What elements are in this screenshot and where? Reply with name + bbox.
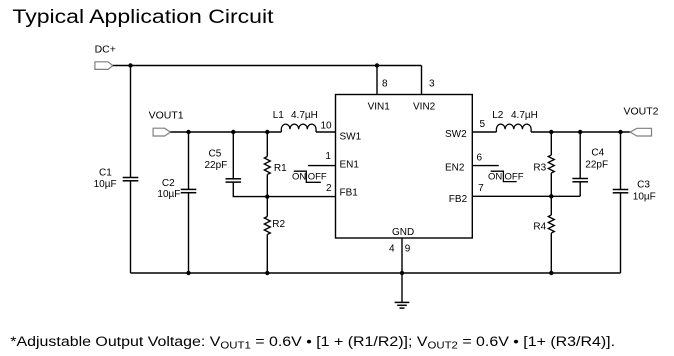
svg-text:SW1: SW1 bbox=[340, 131, 362, 142]
resistor R2 bbox=[264, 217, 285, 235]
svg-text:10µF: 10µF bbox=[94, 179, 117, 190]
capacitor C4 bbox=[572, 147, 608, 181]
wire C5 top lead bbox=[232, 132, 234, 178]
svg-text:2: 2 bbox=[326, 183, 332, 194]
wire R4 leads bbox=[550, 196, 552, 215]
wire C2 leads bbox=[188, 132, 190, 189]
svg-text:C2: C2 bbox=[162, 178, 175, 189]
node junction DC+/C1 bbox=[128, 63, 132, 67]
svg-text:9: 9 bbox=[405, 243, 411, 254]
svg-text:10µF: 10µF bbox=[157, 189, 180, 200]
capacitor C3 bbox=[613, 180, 656, 203]
svg-text:C4: C4 bbox=[591, 147, 604, 158]
capacitor C1 bbox=[94, 167, 139, 190]
node junction C5 top bbox=[231, 130, 235, 134]
wire to ground symbol bbox=[401, 273, 403, 302]
svg-text:C5: C5 bbox=[209, 148, 222, 159]
svg-text:FB2: FB2 bbox=[449, 194, 468, 205]
svg-text:L1: L1 bbox=[273, 110, 285, 121]
svg-text:EN1: EN1 bbox=[340, 159, 360, 170]
node junction FB1/R1/R2 bbox=[265, 194, 269, 198]
wire FB2 net bbox=[472, 195, 580, 197]
wire R3 leads bbox=[550, 132, 552, 155]
node junction R4 bottom bbox=[549, 271, 553, 275]
wire pin 3 drop bbox=[421, 66, 423, 95]
wire C5 bottom lead to FB1 net bbox=[233, 182, 267, 196]
svg-text:R4: R4 bbox=[533, 222, 546, 233]
svg-text:VOUT2: VOUT2 bbox=[624, 106, 659, 118]
svg-text:*Adjustable Output Voltage: VO: *Adjustable Output Voltage: VOUT1 = 0.6V… bbox=[10, 334, 615, 352]
wire L1 to SW1 pin bbox=[316, 131, 336, 133]
node junction GND bbox=[400, 271, 404, 275]
wire EN2 stub bbox=[472, 165, 499, 167]
resistor R1 bbox=[264, 157, 287, 175]
svg-text:ON: ON bbox=[488, 171, 502, 182]
node junction pin8 bbox=[375, 63, 379, 67]
svg-text:5: 5 bbox=[480, 119, 486, 130]
svg-text:3: 3 bbox=[429, 79, 435, 90]
wire C1 bottom lead bbox=[130, 181, 132, 273]
node junction C3 top bbox=[618, 130, 622, 134]
svg-text:R3: R3 bbox=[533, 163, 546, 174]
ground bbox=[395, 302, 410, 308]
svg-text:OFF: OFF bbox=[505, 171, 524, 182]
node junction FB2/R3/R4 bbox=[549, 194, 553, 198]
capacitor C2 bbox=[157, 178, 196, 200]
wire FB1 net bbox=[267, 196, 335, 198]
svg-text:R2: R2 bbox=[272, 219, 285, 230]
node junction C2 top bbox=[186, 130, 190, 134]
wire SW2 to L2 bbox=[472, 131, 496, 133]
svg-text:22pF: 22pF bbox=[205, 160, 228, 171]
capacitor C5 bbox=[205, 148, 242, 182]
svg-text:22pF: 22pF bbox=[585, 160, 608, 171]
svg-text:OFF: OFF bbox=[308, 171, 327, 182]
node junction R1 top bbox=[265, 130, 269, 134]
inductor L2 bbox=[492, 110, 538, 132]
svg-text:Typical Application Circuit: Typical Application Circuit bbox=[12, 5, 273, 27]
wire EN1 stub bbox=[308, 165, 336, 167]
resistor R3 bbox=[533, 155, 554, 174]
svg-text:DC+: DC+ bbox=[95, 44, 116, 56]
svg-text:GND: GND bbox=[392, 227, 414, 238]
wire GND pin to rail bbox=[401, 238, 403, 273]
svg-text:SW2: SW2 bbox=[445, 129, 467, 140]
wire top rail from DC+ to VIN pins bbox=[113, 65, 422, 67]
svg-text:R1: R1 bbox=[274, 163, 287, 174]
wire C4 leads bbox=[579, 132, 581, 178]
svg-text:EN2: EN2 bbox=[445, 162, 465, 173]
svg-text:VIN2: VIN2 bbox=[413, 102, 436, 113]
svg-text:C1: C1 bbox=[99, 167, 112, 178]
wire pin 8 drop bbox=[376, 66, 378, 95]
terminal VOUT1 bbox=[149, 109, 184, 136]
svg-text:1: 1 bbox=[325, 151, 331, 162]
svg-text:4.7µH: 4.7µH bbox=[511, 110, 538, 121]
wire DC+ vertical to C1 bbox=[130, 66, 132, 178]
terminal DC+ bbox=[95, 44, 116, 70]
wire bottom ground rail bbox=[131, 272, 621, 274]
node junction R2 bottom bbox=[265, 271, 269, 275]
wire R1 leads bbox=[266, 132, 268, 157]
node junction C4 top bbox=[578, 130, 582, 134]
svg-text:L2: L2 bbox=[492, 110, 504, 121]
svg-text:10: 10 bbox=[321, 120, 333, 131]
resistor R4 bbox=[533, 215, 554, 233]
node junction R3 top bbox=[549, 130, 553, 134]
op-amp U1 IC body bbox=[336, 95, 473, 239]
terminal VOUT2 bbox=[624, 106, 659, 136]
svg-text:8: 8 bbox=[382, 79, 388, 90]
wire C3 leads bbox=[620, 132, 622, 189]
svg-text:4.7µH: 4.7µH bbox=[291, 110, 318, 121]
ON/OFF annotation EN2 bbox=[488, 171, 524, 182]
node junction C2 bottom bbox=[186, 271, 190, 275]
wire VOUT2 rail bbox=[531, 131, 630, 133]
svg-text:10µF: 10µF bbox=[633, 191, 656, 202]
svg-text:6: 6 bbox=[477, 152, 483, 163]
svg-text:ON: ON bbox=[292, 171, 306, 182]
svg-text:7: 7 bbox=[478, 183, 484, 194]
wire VOUT1 rail to L1 bbox=[170, 131, 281, 133]
wire R2 leads bbox=[266, 197, 268, 217]
svg-text:VIN1: VIN1 bbox=[368, 102, 391, 113]
svg-text:4: 4 bbox=[389, 243, 395, 254]
svg-text:C3: C3 bbox=[637, 180, 650, 191]
svg-text:FB1: FB1 bbox=[340, 187, 359, 198]
ON/OFF annotation EN1 bbox=[292, 171, 327, 182]
inductor L1 bbox=[273, 110, 318, 132]
svg-text:VOUT1: VOUT1 bbox=[149, 109, 184, 121]
